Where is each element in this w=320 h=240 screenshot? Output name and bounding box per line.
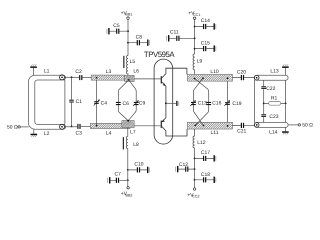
- capacitor C3: [77, 124, 78, 129]
- capacitor C14: [194, 26, 196, 28]
- L2 end circle (coax cross-section): [60, 124, 65, 129]
- svg-text:C12: C12: [179, 162, 188, 168]
- svg-text:C3: C3: [75, 131, 82, 137]
- svg-text:C14: C14: [201, 18, 210, 24]
- coax L14: [254, 122, 288, 127]
- wire shield link L1-L2: [64, 79, 65, 126]
- svg-text:C1: C1: [76, 99, 83, 105]
- wire output: [288, 124, 298, 126]
- ground G1 above L1: [33, 68, 35, 75]
- capacitor C19 trimmer: [227, 81, 229, 122]
- coax L13: [254, 75, 288, 80]
- svg-text:C5: C5: [113, 23, 120, 29]
- wire rail L7 box to Q2 base: [134, 125, 161, 127]
- svg-text:BB2: BB2: [126, 194, 133, 198]
- svg-text:C9: C9: [139, 101, 146, 107]
- svg-text:50 Ω: 50 Ω: [302, 123, 313, 129]
- svg-text:L14: L14: [269, 130, 278, 136]
- svg-text:L3: L3: [106, 69, 112, 75]
- svg-text:C20: C20: [237, 70, 246, 76]
- svg-text:TPV595A: TPV595A: [144, 50, 175, 59]
- wire input to coax bend: [20, 126, 28, 128]
- stripline L6 end box: [125, 75, 134, 81]
- wire lens left branch with C6: [118, 80, 128, 121]
- capacitor C11: [194, 37, 196, 39]
- capacitor C16: [206, 102, 211, 103]
- transistor Q1: [161, 76, 162, 83]
- svg-text:L8: L8: [133, 142, 139, 148]
- coax L1/L2 U-shaped tube: [28, 75, 65, 129]
- wire VCC1 down: [194, 20, 196, 54]
- svg-text:C4: C4: [101, 101, 108, 107]
- svg-text:C8: C8: [136, 34, 143, 40]
- wire C3 to L4: [81, 125, 91, 127]
- svg-text:L1: L1: [44, 69, 50, 75]
- svg-text:C23: C23: [269, 114, 278, 120]
- stripline L10: [188, 74, 233, 81]
- node dots L10: [194, 78, 196, 80]
- wire lens right branch with C9: [128, 80, 136, 121]
- wire lens branch C13: [193, 78, 203, 125]
- capacitor C9 trimmer: [134, 102, 139, 103]
- wire shield link right: [285, 80, 287, 122]
- node lens bottom junction: [127, 120, 129, 122]
- terminal +VCC2: [193, 188, 195, 190]
- svg-text:L9: L9: [197, 59, 203, 65]
- resistor R1: [263, 103, 265, 105]
- inductor L12 choke: [193, 129, 195, 158]
- inductor L9 choke: [193, 54, 195, 75]
- svg-text:50 Ω: 50 Ω: [7, 124, 18, 130]
- stripline L11: [188, 122, 233, 129]
- wire link L13-L14 left: [254, 79, 255, 123]
- svg-text:L13: L13: [270, 68, 279, 74]
- svg-text:CC1: CC1: [193, 13, 200, 17]
- stripline L7 end box: [122, 121, 134, 128]
- wire top rail L1 to C2: [64, 76, 79, 78]
- svg-text:C10: C10: [134, 161, 143, 167]
- svg-text:C17: C17: [201, 150, 210, 156]
- svg-text:C15: C15: [201, 41, 210, 47]
- capacitor C7: [127, 179, 129, 181]
- node dots L11: [194, 125, 196, 127]
- svg-text:C22: C22: [266, 86, 275, 92]
- capacitor C13 trimmer: [191, 102, 196, 103]
- svg-text:C13: C13: [198, 101, 207, 107]
- stripline L3: [91, 75, 125, 80]
- capacitor C2: [79, 75, 80, 80]
- capacitor C8: [127, 42, 129, 44]
- capacitor C5: [127, 30, 129, 32]
- svg-text:C7: C7: [114, 171, 121, 177]
- wire lens branch C16: [195, 79, 209, 126]
- emitter flange tab: [166, 102, 176, 104]
- wire C2 to L3: [82, 77, 91, 79]
- capacitor C18: [194, 179, 196, 181]
- node junction C1 top: [71, 76, 73, 78]
- ground G3 above L13: [284, 68, 286, 75]
- capacitor C1: [71, 77, 73, 126]
- ground G2 below L2 bend: [33, 129, 35, 134]
- stripline L4: [91, 123, 131, 128]
- svg-text:L2: L2: [44, 131, 50, 137]
- capacitor C23: [263, 103, 265, 122]
- svg-text:C11: C11: [170, 29, 179, 35]
- svg-text:L11: L11: [211, 130, 219, 136]
- svg-text:C18: C18: [201, 172, 210, 178]
- wire rail L6 box to Q1 base: [134, 78, 161, 80]
- capacitor C10: [127, 169, 129, 171]
- ground G4 below L14: [284, 127, 286, 131]
- svg-text:BB1: BB1: [125, 13, 132, 17]
- node junction C1 bottom: [71, 126, 73, 128]
- svg-text:L5: L5: [130, 59, 136, 65]
- terminal +VBB2: [127, 187, 129, 189]
- node emitter junction: [165, 102, 167, 104]
- svg-text:L4: L4: [106, 130, 112, 136]
- L1 end circle (coax cross-section): [60, 75, 65, 80]
- svg-text:C2: C2: [75, 69, 82, 75]
- capacitor C15: [194, 48, 196, 50]
- inductor L5 L6 choke: [126, 55, 128, 75]
- svg-text:CC2: CC2: [192, 195, 199, 199]
- capacitor C4 trimmer: [96, 80, 98, 126]
- wire VBB1 down: [127, 19, 129, 55]
- svg-text:C19: C19: [232, 101, 241, 107]
- svg-text:L6: L6: [133, 69, 139, 75]
- node lens top junction: [128, 79, 130, 81]
- capacitor C17: [194, 158, 196, 160]
- transistor Q2: [161, 121, 162, 128]
- svg-text:L7: L7: [130, 130, 136, 136]
- capacitor C12: [194, 168, 196, 170]
- svg-text:C16: C16: [212, 101, 221, 107]
- capacitor C20: [232, 77, 254, 79]
- terminal OUT: [298, 124, 300, 126]
- svg-text:L12: L12: [197, 140, 206, 146]
- terminal IN: [18, 126, 20, 128]
- svg-text:R1: R1: [271, 95, 278, 101]
- capacitor C21: [232, 124, 254, 126]
- inductor L7 L8 choke: [126, 128, 128, 170]
- svg-text:L10: L10: [210, 69, 219, 75]
- capacitor C6: [116, 102, 121, 103]
- svg-text:C21: C21: [237, 129, 246, 135]
- wire bottom rail L2 to C3: [64, 126, 77, 128]
- svg-text:C6: C6: [123, 101, 130, 107]
- capacitor C22: [263, 80, 265, 103]
